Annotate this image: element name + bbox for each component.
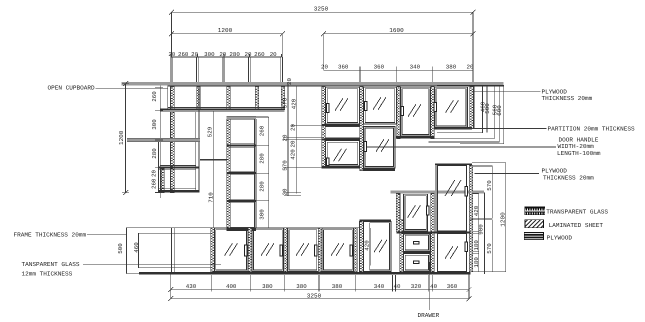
glass door 1	[326, 87, 359, 124]
left column right wall	[195, 112, 197, 193]
svg-text:40: 40	[430, 283, 437, 290]
svg-text:570: 570	[282, 160, 289, 171]
door 2b handle	[364, 141, 367, 152]
door 3 handle	[401, 106, 404, 116]
svg-text:380: 380	[262, 283, 273, 290]
svg-text:1200: 1200	[118, 130, 125, 145]
svg-text:THICKNESS 20mm: THICKNESS 20mm	[543, 175, 594, 182]
left column shelf thick	[158, 166, 199, 168]
bottom dim line 1	[171, 289, 469, 291]
svg-text:3250: 3250	[314, 6, 329, 13]
svg-text:710: 710	[207, 192, 214, 203]
svg-text:DRAWER: DRAWER	[418, 312, 440, 319]
door 1 handle	[326, 103, 329, 113]
middle column gray top band	[227, 116, 257, 119]
drawers top thick	[396, 232, 470, 234]
svg-text:600: 600	[496, 105, 503, 116]
mid door handle	[426, 205, 430, 215]
dimension 1600 top line	[323, 34, 473, 70]
open cupboard top row top edge	[171, 56, 282, 58]
dim end slash ticks	[123, 10, 475, 302]
svg-text:300: 300	[259, 209, 266, 220]
legend swatch plywood	[524, 232, 543, 240]
dim line 1200 right	[505, 163, 507, 272]
drawers divider thick	[403, 252, 430, 254]
tick 360/360	[359, 67, 361, 86]
bottom outer frame	[127, 228, 360, 274]
main gray worktop band	[122, 82, 504, 85]
gray shelf band left	[127, 138, 200, 141]
svg-text:280: 280	[151, 148, 158, 159]
dark line under gray band	[168, 85, 504, 87]
door 4 handle	[434, 102, 438, 112]
left column row thin lines	[158, 108, 284, 189]
door 1c handle	[326, 158, 329, 167]
bottom glass door B	[252, 228, 284, 271]
dim line 570 top	[491, 166, 493, 218]
tall glass top thick edge	[435, 163, 472, 165]
529/710 separator double tick	[200, 158, 227, 160]
FRAME leader	[87, 234, 127, 236]
svg-text:420: 420	[291, 98, 298, 109]
svg-text:LENGTH-100mm: LENGTH-100mm	[557, 150, 601, 157]
middle column shelf 1	[227, 145, 257, 147]
bottom ticks	[211, 275, 213, 292]
door4 bottom thick	[435, 127, 473, 130]
bottom partition hatch bands	[211, 228, 215, 272]
middle column hatched left wall	[227, 119, 231, 228]
svg-text:20: 20	[151, 170, 158, 177]
chain line inner	[295, 86, 297, 194]
top-right detail dim text row	[321, 64, 474, 71]
lower glass handle	[465, 242, 469, 252]
nested rect 560	[431, 86, 495, 138]
svg-text:1600: 1600	[389, 27, 404, 34]
svg-text:300: 300	[151, 119, 158, 130]
door D handle	[350, 244, 354, 256]
middle column bottom thick	[227, 228, 257, 231]
middle column shelf 3	[227, 200, 257, 202]
svg-text:3250: 3250	[307, 292, 322, 299]
end connector left	[170, 274, 172, 298]
chain tick bottom double	[284, 192, 301, 194]
svg-text:460: 460	[133, 242, 140, 253]
svg-text:280: 280	[259, 181, 266, 192]
wall hatch band 3	[397, 87, 401, 139]
svg-text:529: 529	[206, 126, 213, 137]
svg-text:260: 260	[259, 125, 266, 136]
dimension 1200 left vertical	[125, 84, 127, 193]
svg-text:20: 20	[290, 140, 297, 147]
glass door 1c	[326, 141, 359, 166]
left column edge / dim line	[159, 86, 161, 198]
nested rect 600	[429, 86, 500, 142]
glass door 2	[364, 87, 396, 124]
legend swatch laminated sheet	[525, 220, 544, 228]
svg-text:OPEN CUPBOARD: OPEN CUPBOARD	[48, 85, 96, 92]
DOOR HANDLE leader	[367, 146, 556, 148]
svg-text:1200: 1200	[218, 27, 233, 34]
svg-text:1200: 1200	[500, 212, 507, 227]
svg-text:400: 400	[226, 283, 237, 290]
svg-text:20: 20	[282, 134, 289, 141]
svg-text:LAMINATED SHEET: LAMINATED SHEET	[549, 222, 604, 229]
svg-text:PLYWOOD: PLYWOOD	[542, 168, 568, 175]
wall hatch band left	[322, 87, 326, 169]
svg-text:PLYWOOD: PLYWOOD	[547, 235, 573, 242]
cabinet top thick edge	[437, 85, 504, 87]
chain line outer	[287, 84, 289, 196]
drawer 1 front	[404, 234, 430, 252]
TANSPARENT leader	[83, 263, 221, 265]
bottom thick base band	[139, 272, 471, 275]
dim ticks on left column line	[155, 87, 163, 192]
drawer right wall hatch band	[431, 194, 435, 272]
svg-text:20: 20	[467, 64, 474, 71]
glass door 2b tall	[364, 127, 395, 168]
svg-text:180: 180	[473, 240, 480, 251]
middle column thin row lines	[230, 119, 254, 227]
door 2 handle	[364, 101, 367, 111]
dimension 529/710 vertical line	[213, 111, 215, 228]
door1 col open box lines	[325, 126, 359, 128]
PARTITION leader	[437, 128, 547, 130]
svg-text:20: 20	[286, 78, 293, 85]
top right detail dim line	[323, 69, 473, 71]
row2 left outer edge	[167, 86, 169, 109]
svg-text:570: 570	[486, 180, 493, 191]
svg-text:THICKNESS 20mm: THICKNESS 20mm	[542, 95, 593, 102]
svg-text:180: 180	[473, 257, 480, 268]
svg-text:260: 260	[151, 91, 158, 102]
svg-text:570: 570	[282, 97, 289, 108]
tall door internal dim line	[369, 228, 371, 266]
nested rect 500	[437, 86, 482, 133]
svg-text:FRAME THICKNESS 20mm: FRAME THICKNESS 20mm	[14, 232, 87, 239]
chain tick 570	[283, 136, 322, 138]
left column outer edge rows3-4	[157, 142, 159, 193]
door1 col shelf thick	[322, 124, 360, 126]
drawer 1 handle	[413, 241, 420, 245]
bottom dim line 2 (3250)	[171, 298, 469, 300]
chain tick door1c bottom	[283, 166, 322, 168]
tall glass left double edge	[434, 163, 436, 231]
chain tick top	[283, 85, 322, 87]
end connector right	[468, 274, 470, 298]
row2 bottom thick shelf	[160, 108, 285, 110]
glass door 4	[435, 87, 468, 127]
bottom glass door A	[214, 228, 248, 271]
tall glass panel	[438, 166, 467, 231]
svg-text:360: 360	[447, 283, 458, 290]
door C handle	[314, 244, 318, 256]
bottom inner offset rect	[138, 233, 210, 268]
svg-text:420: 420	[363, 240, 370, 251]
svg-text:340: 340	[410, 64, 421, 71]
svg-text:420: 420	[290, 149, 297, 160]
svg-text:420: 420	[473, 205, 480, 216]
svg-text:340: 340	[374, 283, 385, 290]
frame divider double line	[170, 228, 172, 274]
svg-text:20: 20	[290, 124, 297, 131]
nested edge 460	[473, 86, 475, 128]
top row double-line dividers	[170, 57, 282, 82]
svg-text:360: 360	[374, 64, 385, 71]
svg-text:380: 380	[332, 283, 343, 290]
drawer 2 handle	[413, 260, 420, 264]
middle column right wall	[253, 119, 255, 228]
bottom glass door D	[322, 228, 353, 271]
svg-text:280: 280	[259, 153, 266, 164]
svg-text:260: 260	[151, 178, 158, 189]
dim line 570 bottom	[491, 220, 493, 272]
PLYWOOD upper leader	[473, 90, 541, 92]
svg-text:360: 360	[338, 64, 349, 71]
svg-text:500: 500	[117, 243, 124, 254]
svg-text:570: 570	[486, 243, 493, 254]
dimension 1200 top line	[172, 34, 283, 57]
mid unit gray top band	[391, 190, 484, 193]
chain tick 420	[291, 124, 322, 126]
svg-text:TANSPARENT GLASS: TANSPARENT GLASS	[22, 261, 80, 268]
svg-text:20: 20	[321, 64, 328, 71]
right wall hatch band	[469, 165, 473, 272]
outer frame 600b	[460, 85, 504, 144]
svg-text:900: 900	[477, 224, 484, 235]
top row bottom line	[171, 81, 282, 83]
door B handle	[280, 244, 284, 256]
row2 hatched partitions	[171, 87, 285, 110]
drawer left hatch band	[400, 219, 404, 271]
svg-text:TRANSPARENT GLASS: TRANSPARENT GLASS	[546, 208, 608, 215]
svg-text:500: 500	[484, 103, 491, 114]
door1 col bottom thick	[322, 166, 360, 168]
left column lower-left hatch band	[161, 169, 164, 193]
top row divider ticks above line	[171, 54, 282, 57]
door A handle	[244, 244, 248, 256]
wall hatch band 2	[360, 87, 364, 171]
glass door 3 tall	[401, 87, 431, 136]
svg-text:12mm THICKNESS: 12mm THICKNESS	[22, 271, 73, 278]
left column bottom thick	[158, 190, 199, 193]
lower glass panel	[438, 234, 467, 272]
tall door panel	[364, 221, 391, 271]
svg-text:40: 40	[394, 283, 401, 290]
tall door top thick	[360, 219, 392, 221]
mid door panel	[404, 194, 428, 231]
wall hatch band 5	[470, 87, 474, 129]
middle column right dim line	[256, 117, 269, 228]
left column hatched wall	[171, 112, 175, 193]
tall glass handle	[465, 186, 469, 196]
drawer 2 front	[404, 254, 430, 272]
OPEN CUPBOARD leader	[96, 87, 168, 89]
bottom dim labels	[186, 283, 458, 290]
dimension 3250 top line	[172, 12, 474, 85]
DRAWER leader	[428, 262, 430, 310]
dim line 900	[484, 193, 486, 275]
dim line 420/180/180	[478, 194, 480, 272]
middle column shelf 2	[227, 172, 257, 174]
svg-text:PARTITION 20mm THICKNESS: PARTITION 20mm THICKNESS	[548, 126, 635, 133]
door cabinet left hatch band	[396, 194, 400, 232]
svg-text:320: 320	[411, 283, 422, 290]
legend swatch transparent glass	[525, 207, 545, 215]
PLYWOOD lower leader	[474, 173, 539, 175]
svg-text:20: 20	[282, 188, 289, 195]
door2 col bottom thick	[362, 168, 395, 171]
chain tick shelf	[283, 139, 322, 141]
tick 340/380	[431, 67, 433, 86]
tall door left hatch band	[360, 221, 364, 272]
wall hatch band 4	[431, 87, 435, 139]
svg-text:380: 380	[446, 64, 457, 71]
svg-text:430: 430	[186, 283, 197, 290]
door3 bottom thick	[396, 136, 434, 139]
svg-text:380: 380	[296, 283, 307, 290]
bottom glass door C	[288, 228, 319, 271]
tick 360/340	[395, 67, 397, 86]
top-left detail dim text row	[168, 51, 277, 58]
door1 col lower shelf thick	[322, 138, 360, 140]
